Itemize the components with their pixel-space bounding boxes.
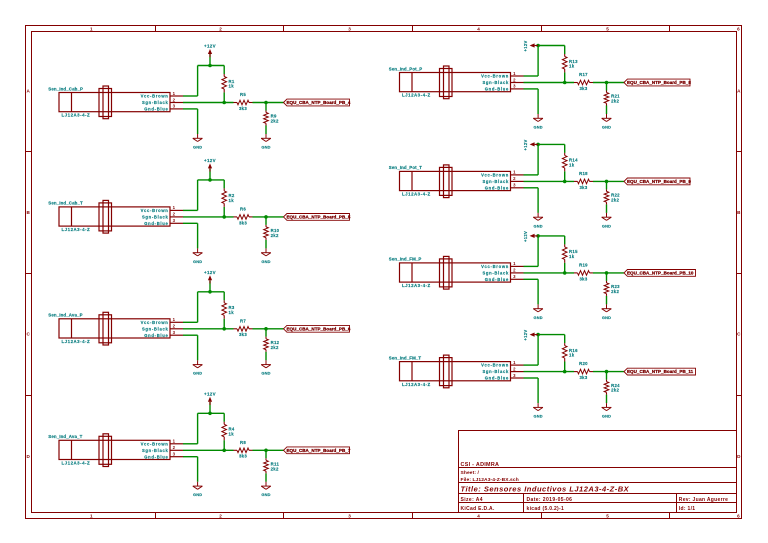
svg-text:+12V: +12V (204, 44, 216, 49)
svg-text:+12V: +12V (204, 158, 216, 163)
svg-text:GND: GND (533, 414, 542, 419)
svg-text:GND: GND (193, 492, 202, 497)
wire R6 to output label (block 2) (253, 216, 284, 218)
svg-text:GND: GND (533, 223, 542, 228)
svg-text:R7: R7 (240, 318, 246, 323)
pin 1 of J5 (511, 71, 524, 76)
wire junction to R9 (block 1) (265, 103, 267, 111)
svg-text:2k2: 2k2 (271, 233, 279, 238)
junction R2/signal (block 2) (222, 215, 226, 219)
wire R20 to output label (block 8) (593, 371, 624, 373)
resistor R10 2k2 pull-down (block 2) (264, 225, 280, 240)
wire rail to R16 (block 8) (564, 335, 566, 344)
svg-text:EQU_CBA_NTP_Board_PB_4: EQU_CBA_NTP_Board_PB_4 (287, 100, 351, 105)
svg-text:Sgn-Black: Sgn-Black (482, 80, 509, 85)
ground GND pin3 block 5 (533, 114, 543, 129)
svg-text:File: LJ12A3-4-Z-BX.sch: File: LJ12A3-4-Z-BX.sch (461, 477, 519, 483)
wire Vcc pin1 to +12V rail (block 7) (524, 236, 539, 267)
wire Sgn pin2 to R18 (block 6) (524, 180, 575, 182)
wire Gnd pin3 to ground (block 7) (524, 279, 539, 304)
svg-text:Vcc-Brown: Vcc-Brown (481, 363, 509, 368)
svg-text:1: 1 (90, 513, 93, 518)
svg-text:1k: 1k (229, 310, 235, 315)
wire rail to R1 (block 1) (223, 66, 225, 75)
wire Vcc pin1 to +12V rail (block 6) (524, 144, 539, 175)
wire junction to R12 (block 3) (265, 329, 267, 337)
resistor R22 2k2 pull-down (block 6) (604, 189, 620, 204)
wire Gnd pin3 to ground (block 6) (524, 188, 539, 213)
junction R4/signal (block 4) (222, 449, 226, 453)
resistor R6 3k3 series (block 2) (234, 207, 253, 226)
resistor R9 2k2 pull-down (block 1) (264, 111, 279, 126)
wire junction to R21 (block 5) (606, 83, 608, 91)
svg-text:D: D (27, 454, 31, 459)
svg-text:Sgn-Black: Sgn-Black (142, 448, 169, 453)
svg-text:Sen_Ind_FM_P: Sen_Ind_FM_P (389, 257, 422, 262)
wire rail to R14 (block 6) (564, 144, 566, 153)
svg-text:2: 2 (173, 212, 176, 217)
power +12V (block 1) (204, 44, 216, 66)
svg-text:R6: R6 (240, 207, 246, 212)
junction at +12V rail (block 2) (208, 178, 212, 182)
junction at +12V rail (block 4) (208, 412, 212, 416)
svg-text:Vcc-Brown: Vcc-Brown (141, 208, 169, 213)
title block (459, 431, 737, 513)
svg-text:EQU_CBA_NTP_Board_PB_5: EQU_CBA_NTP_Board_PB_5 (287, 215, 351, 220)
hierarchical label EQU_CBA_NTP_Board_PB_9 (block 6) (624, 178, 691, 185)
junction R3/signal (block 3) (222, 327, 226, 331)
wire +12V rail (block 3) (198, 291, 225, 293)
ground GND R12 block 3 (261, 360, 271, 375)
svg-text:1k: 1k (569, 353, 575, 358)
svg-text:Vcc-Brown: Vcc-Brown (481, 264, 509, 269)
svg-text:3k3: 3k3 (239, 454, 247, 459)
svg-text:R18: R18 (579, 171, 588, 176)
ground GND pin3 block 7 (533, 304, 543, 319)
svg-text:C: C (737, 332, 741, 337)
svg-text:1: 1 (513, 71, 516, 76)
svg-text:GND: GND (261, 371, 270, 376)
wire rail to R15 (block 7) (564, 236, 566, 245)
hierarchical label EQU_CBA_NTP_Board_PB_5 (block 2) (284, 214, 351, 221)
svg-text:EQU_CBA_NTP_Board_PB_9: EQU_CBA_NTP_Board_PB_9 (627, 179, 691, 184)
svg-text:1k: 1k (569, 254, 575, 259)
svg-text:1k: 1k (229, 431, 235, 436)
svg-text:EQU_CBA_NTP_Board_PB_6: EQU_CBA_NTP_Board_PB_6 (287, 326, 351, 331)
svg-text:3: 3 (173, 452, 176, 457)
wire Sgn pin2 to R8 (block 4) (183, 449, 234, 451)
svg-text:Sen_Ind_Cab_T: Sen_Ind_Cab_T (48, 201, 83, 206)
hierarchical label EQU_CBA_NTP_Board_PB_8 (block 5) (624, 79, 691, 86)
resistor R16 1k pull-up (block 8) (562, 343, 578, 361)
svg-text:Sen_Ind_Ava_P: Sen_Ind_Ava_P (48, 313, 82, 318)
pin 2 of J5 (511, 77, 524, 82)
wire rail to R2 (block 2) (223, 180, 225, 189)
resistor R12 2k2 pull-down (block 3) (264, 337, 280, 352)
svg-text:Gnd-Blue: Gnd-Blue (485, 185, 509, 190)
resistor R24 2k2 pull-down (block 8) (604, 380, 620, 395)
svg-text:2k2: 2k2 (271, 119, 279, 124)
wire Vcc pin1 to +12V rail (block 1) (183, 66, 198, 97)
resistor R2 1k pull-up (block 2) (222, 188, 235, 206)
svg-text:3: 3 (348, 513, 351, 518)
junction at +12V rail (block 6) (536, 143, 540, 147)
svg-text:5: 5 (606, 513, 609, 518)
svg-text:1: 1 (173, 317, 176, 322)
pin 1 of J7 (511, 261, 524, 266)
svg-text:4: 4 (477, 513, 480, 518)
svg-text:3: 3 (513, 84, 516, 89)
svg-text:LJ12A3-4-Z: LJ12A3-4-Z (402, 382, 431, 387)
svg-text:GND: GND (602, 124, 611, 129)
pin 1 of J2 (170, 205, 183, 210)
svg-text:+12V: +12V (523, 231, 528, 242)
ground GND R11 block 4 (261, 482, 271, 497)
svg-text:GND: GND (602, 223, 611, 228)
svg-text:1k: 1k (569, 163, 575, 168)
resistor R21 2k2 pull-down (block 5) (604, 91, 620, 106)
svg-text:2: 2 (513, 268, 516, 273)
svg-text:GND: GND (261, 492, 270, 497)
pin 2 of J1 (170, 97, 183, 102)
svg-text:LJ12A3-4-Z: LJ12A3-4-Z (402, 283, 431, 288)
svg-text:2k2: 2k2 (271, 466, 279, 471)
wire Vcc pin1 to +12V rail (block 5) (524, 46, 539, 77)
wire R10 to ground (block 2) (265, 240, 267, 249)
svg-text:Sgn-Black: Sgn-Black (142, 326, 169, 331)
ground GND R21 block 5 (602, 114, 612, 129)
svg-text:Sgn-Black: Sgn-Black (142, 215, 169, 220)
svg-text:R8: R8 (240, 440, 246, 445)
pin 3 of J8 (511, 373, 524, 378)
svg-text:2: 2 (513, 366, 516, 371)
junction R19/R23 (block 7) (605, 271, 609, 275)
resistor R1 1k pull-up (block 1) (222, 74, 235, 92)
svg-text:1: 1 (173, 439, 176, 444)
junction R16/signal (block 8) (563, 370, 567, 374)
svg-text:Gnd-Blue: Gnd-Blue (144, 333, 168, 338)
wire R5 to output label (block 1) (253, 102, 284, 104)
connector J1 sensor Sen_Ind_Cab_P LJ12A3-4-Z (48, 86, 170, 119)
pin 3 of J1 (170, 104, 183, 109)
junction R1/signal (block 1) (222, 101, 226, 105)
wire +12V rail (block 6) (538, 143, 565, 145)
wire R3 to signal net (block 3) (223, 319, 225, 329)
hierarchical label EQU_CBA_NTP_Board_PB_11 (block 8) (624, 368, 696, 375)
svg-text:Sgn-Black: Sgn-Black (482, 179, 509, 184)
svg-text:GND: GND (193, 144, 202, 149)
connector J7 sensor Sen_Ind_FM_P LJ12A3-4-Z (389, 256, 511, 289)
wire R4 to signal net (block 4) (223, 440, 225, 450)
svg-text:1: 1 (513, 360, 516, 365)
power +12V (block 3) (204, 270, 216, 292)
junction R15/signal (block 7) (563, 271, 567, 275)
pin 1 of J3 (170, 317, 183, 322)
svg-text:3k3: 3k3 (579, 185, 587, 190)
wire R23 to ground (block 7) (606, 296, 608, 305)
resistor R8 3k3 series (block 4) (234, 440, 253, 459)
wire R12 to ground (block 3) (265, 352, 267, 361)
svg-text:2: 2 (173, 97, 176, 102)
svg-text:3: 3 (513, 274, 516, 279)
svg-text:1: 1 (173, 91, 176, 96)
junction at +12V rail (block 1) (208, 64, 212, 68)
ground GND pin3 block 3 (193, 360, 203, 375)
wire R15 to signal net (block 7) (564, 263, 566, 273)
svg-text:LJ12A3-4-Z: LJ12A3-4-Z (62, 227, 91, 232)
svg-text:GND: GND (261, 144, 270, 149)
pin 2 of J4 (170, 445, 183, 450)
pin 3 of J7 (511, 274, 524, 279)
svg-text:2k2: 2k2 (611, 197, 619, 202)
wire Sgn pin2 to R6 (block 2) (183, 216, 234, 218)
svg-text:R5: R5 (240, 92, 246, 97)
pin 3 of J4 (170, 452, 183, 457)
svg-text:3: 3 (173, 104, 176, 109)
svg-text:B: B (737, 210, 741, 215)
resistor R5 3k3 series (block 1) (234, 92, 253, 111)
svg-text:R17: R17 (579, 72, 588, 77)
svg-text:3k3: 3k3 (239, 332, 247, 337)
svg-text:LJ12A3-4-Z: LJ12A3-4-Z (402, 93, 431, 98)
pin 2 of J7 (511, 268, 524, 273)
pin 2 of J2 (170, 212, 183, 217)
wire R19 to output label (block 7) (593, 272, 624, 274)
svg-text:Gnd-Blue: Gnd-Blue (485, 376, 509, 381)
wire rail to R13 (block 5) (564, 46, 566, 55)
connector J6 sensor Sen_Ind_Pot_T LJ12A3-4-Z (389, 165, 511, 198)
pin 2 of J8 (511, 366, 524, 371)
pin 1 of J8 (511, 360, 524, 365)
svg-text:kicad (5.0.2)-1: kicad (5.0.2)-1 (527, 506, 565, 512)
svg-text:CSI - ADIMRA: CSI - ADIMRA (461, 462, 500, 468)
svg-text:GND: GND (193, 259, 202, 264)
wire junction to R11 (block 4) (265, 450, 267, 458)
wire R13 to signal net (block 5) (564, 72, 566, 82)
svg-text:2k2: 2k2 (611, 289, 619, 294)
junction R13/signal (block 5) (563, 81, 567, 85)
svg-text:2k2: 2k2 (271, 345, 279, 350)
wire Sgn pin2 to R5 (block 1) (183, 102, 234, 104)
svg-text:1: 1 (513, 170, 516, 175)
wire R24 to ground (block 8) (606, 395, 608, 404)
resistor R13 1k pull-up (block 5) (562, 54, 578, 72)
svg-text:2k2: 2k2 (611, 99, 619, 104)
svg-text:R20: R20 (579, 361, 588, 366)
wire R22 to ground (block 6) (606, 204, 608, 213)
svg-text:EQU_CBA_NTP_Board_PB_8: EQU_CBA_NTP_Board_PB_8 (627, 80, 691, 85)
wire Vcc pin1 to +12V rail (block 8) (524, 335, 539, 366)
power +12V (block 2) (204, 158, 216, 180)
svg-text:3: 3 (513, 183, 516, 188)
connector J8 sensor Sen_Ind_FM_T LJ12A3-4-Z (389, 355, 511, 388)
wire +12V rail (block 4) (198, 412, 225, 414)
wire Sgn pin2 to R17 (block 5) (524, 82, 575, 84)
wire +12V rail (block 7) (538, 235, 565, 237)
ground GND R9 block 1 (261, 134, 271, 149)
wire junction to R10 (block 2) (265, 217, 267, 225)
wire Gnd pin3 to ground (block 1) (183, 109, 198, 134)
pin 3 of J6 (511, 183, 524, 188)
ground GND pin3 block 6 (533, 213, 543, 228)
wire +12V rail (block 1) (198, 65, 225, 67)
wire junction to R22 (block 6) (606, 181, 608, 189)
svg-text:LJ12A3-4-Z: LJ12A3-4-Z (402, 192, 431, 197)
ground GND pin3 block 2 (193, 248, 203, 263)
wire Sgn pin2 to R19 (block 7) (524, 272, 575, 274)
wire Vcc pin1 to +12V rail (block 2) (183, 180, 198, 211)
svg-text:GND: GND (533, 315, 542, 320)
svg-text:GND: GND (193, 371, 202, 376)
svg-text:Sen_Ind_Ava_T: Sen_Ind_Ava_T (48, 434, 82, 439)
svg-text:3k3: 3k3 (239, 220, 247, 225)
svg-text:EQU_CBA_NTP_Board_PB_10: EQU_CBA_NTP_Board_PB_10 (627, 271, 694, 276)
svg-text:Vcc-Brown: Vcc-Brown (141, 320, 169, 325)
pin 1 of J1 (170, 91, 183, 96)
resistor R4 1k pull-up (block 4) (222, 422, 235, 440)
svg-text:3k3: 3k3 (239, 106, 247, 111)
svg-text:LJ12A3-4-Z: LJ12A3-4-Z (62, 461, 91, 466)
wire Gnd pin3 to ground (block 4) (183, 457, 198, 482)
power +12V (block 4) (204, 392, 216, 414)
svg-text:Gnd-Blue: Gnd-Blue (485, 87, 509, 92)
hierarchical label EQU_CBA_NTP_Board_PB_4 (block 1) (284, 99, 351, 106)
junction R18/R22 (block 6) (605, 180, 609, 184)
wire +12V rail (block 8) (538, 334, 565, 336)
pin 1 of J6 (511, 170, 524, 175)
junction at +12V rail (block 3) (208, 290, 212, 294)
wire Gnd pin3 to ground (block 5) (524, 89, 539, 114)
junction R6/R10 (block 2) (264, 215, 268, 219)
hierarchical label EQU_CBA_NTP_Board_PB_7 (block 4) (284, 447, 351, 454)
svg-text:Sen_Ind_Cab_P: Sen_Ind_Cab_P (48, 86, 83, 91)
junction R7/R12 (block 3) (264, 327, 268, 331)
svg-text:+12V: +12V (204, 270, 216, 275)
wire R17 to output label (block 5) (593, 82, 624, 84)
svg-text:Gnd-Blue: Gnd-Blue (144, 454, 168, 459)
connector J4 sensor Sen_Ind_Ava_T LJ12A3-4-Z (48, 434, 170, 467)
svg-text:Vcc-Brown: Vcc-Brown (481, 173, 509, 178)
pin 3 of J5 (511, 84, 524, 89)
wire junction to R23 (block 7) (606, 273, 608, 281)
svg-text:Sgn-Black: Sgn-Black (482, 271, 509, 276)
svg-text:3: 3 (173, 330, 176, 335)
wire junction to R24 (block 8) (606, 372, 608, 380)
svg-text:6: 6 (737, 26, 740, 31)
wire R9 to ground (block 1) (265, 126, 267, 135)
wire +12V rail (block 2) (198, 179, 225, 181)
svg-text:A: A (27, 89, 31, 94)
resistor R3 1k pull-up (block 3) (222, 300, 235, 318)
power +12V (block 5) (523, 40, 538, 51)
svg-text:D: D (737, 454, 741, 459)
svg-text:2: 2 (513, 77, 516, 82)
wire Gnd pin3 to ground (block 8) (524, 378, 539, 403)
svg-text:Sen_Ind_FM_T: Sen_Ind_FM_T (389, 355, 422, 360)
svg-text:4: 4 (477, 26, 480, 31)
wire R14 to signal net (block 6) (564, 171, 566, 181)
pin 3 of J3 (170, 330, 183, 335)
svg-text:Id: 1/1: Id: 1/1 (679, 506, 696, 512)
svg-text:Sheet: /: Sheet: / (461, 470, 480, 476)
svg-text:GND: GND (602, 414, 611, 419)
resistor R23 2k2 pull-down (block 7) (604, 281, 620, 296)
wire rail to R4 (block 4) (223, 413, 225, 422)
svg-text:Vcc-Brown: Vcc-Brown (141, 94, 169, 99)
pin 2 of J6 (511, 176, 524, 181)
svg-text:3: 3 (513, 373, 516, 378)
svg-text:KiCad E.D.A.: KiCad E.D.A. (461, 506, 495, 512)
svg-text:1k: 1k (569, 64, 575, 69)
resistor R20 3k3 series (block 8) (574, 361, 593, 380)
wire Gnd pin3 to ground (block 3) (183, 335, 198, 360)
ground GND R24 block 8 (602, 403, 612, 418)
svg-text:Gnd-Blue: Gnd-Blue (144, 221, 168, 226)
svg-text:+12V: +12V (523, 139, 528, 150)
svg-text:Sgn-Black: Sgn-Black (482, 369, 509, 374)
ground GND pin3 block 1 (193, 134, 203, 149)
svg-text:Sen_Ind_Pot_P: Sen_Ind_Pot_P (389, 66, 423, 71)
svg-text:B: B (27, 210, 31, 215)
resistor R7 3k3 series (block 3) (234, 318, 253, 337)
svg-text:1k: 1k (229, 198, 235, 203)
svg-text:LJ12A3-4-Z: LJ12A3-4-Z (62, 339, 91, 344)
connector J5 sensor Sen_Ind_Pot_P LJ12A3-4-Z (389, 66, 511, 99)
svg-text:3k3: 3k3 (579, 86, 587, 91)
svg-text:GND: GND (261, 259, 270, 264)
hierarchical label EQU_CBA_NTP_Board_PB_10 (block 7) (624, 270, 696, 277)
wire rail to R3 (block 3) (223, 292, 225, 301)
svg-text:Gnd-Blue: Gnd-Blue (144, 107, 168, 112)
svg-text:6: 6 (737, 513, 740, 518)
resistor R15 1k pull-up (block 7) (562, 244, 578, 262)
svg-text:Sgn-Black: Sgn-Black (142, 100, 169, 105)
ground GND pin3 block 4 (193, 482, 203, 497)
wire R18 to output label (block 6) (593, 180, 624, 182)
svg-text:Vcc-Brown: Vcc-Brown (481, 74, 509, 79)
svg-text:+12V: +12V (204, 392, 216, 397)
wire R2 to signal net (block 2) (223, 207, 225, 217)
svg-text:2k2: 2k2 (611, 388, 619, 393)
svg-text:EQU_CBA_NTP_Board_PB_7: EQU_CBA_NTP_Board_PB_7 (287, 448, 351, 453)
ground GND R23 block 7 (602, 304, 612, 319)
power +12V (block 6) (523, 139, 538, 150)
junction R8/R11 (block 4) (264, 449, 268, 453)
svg-text:1k: 1k (229, 84, 235, 89)
svg-text:R19: R19 (579, 263, 588, 268)
wire R8 to output label (block 4) (253, 449, 284, 451)
svg-text:Title: Sensores Inductivos LJ1: Title: Sensores Inductivos LJ12A3-4-Z-BX (461, 485, 630, 494)
svg-text:+12V: +12V (523, 40, 528, 51)
svg-text:3: 3 (348, 26, 351, 31)
svg-text:A: A (737, 89, 741, 94)
svg-text:2: 2 (219, 26, 222, 31)
hierarchical label EQU_CBA_NTP_Board_PB_6 (block 3) (284, 325, 351, 332)
svg-text:EQU_CBA_NTP_Board_PB_11: EQU_CBA_NTP_Board_PB_11 (627, 369, 694, 374)
svg-text:Gnd-Blue: Gnd-Blue (485, 277, 509, 282)
wire +12V rail (block 5) (538, 45, 565, 47)
svg-text:GND: GND (533, 124, 542, 129)
wire Vcc pin1 to +12V rail (block 3) (183, 292, 198, 323)
svg-text:2: 2 (173, 324, 176, 329)
resistor R14 1k pull-up (block 6) (562, 153, 578, 171)
ground GND pin3 block 8 (533, 403, 543, 418)
wire Sgn pin2 to R7 (block 3) (183, 328, 234, 330)
power +12V (block 8) (523, 330, 538, 341)
svg-text:Date: 2019-05-06: Date: 2019-05-06 (527, 497, 573, 503)
wire R21 to ground (block 5) (606, 106, 608, 115)
pin 2 of J3 (170, 324, 183, 329)
